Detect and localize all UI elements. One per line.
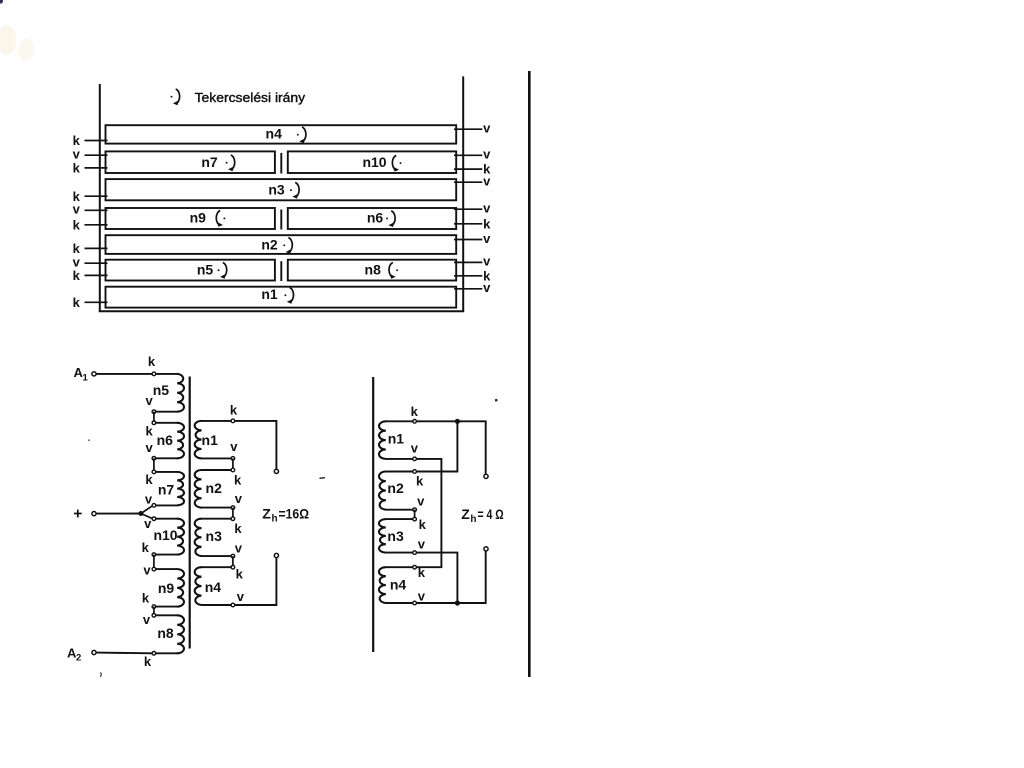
winding direction arrow in n2 bbox=[283, 238, 292, 254]
svg-text:v: v bbox=[483, 174, 491, 189]
legend: winding direction symbol bbox=[171, 89, 180, 105]
svg-text:Tekercselési irány: Tekercselési irány bbox=[195, 90, 306, 105]
winding par n1 coil bbox=[379, 421, 413, 459]
node v of par n3 bbox=[413, 551, 417, 555]
junction dot bottom rail bbox=[455, 600, 460, 605]
wire n1.k to junction and output top bbox=[417, 421, 486, 474]
svg-text:n4: n4 bbox=[266, 126, 283, 142]
node v of par n2 bbox=[413, 508, 417, 512]
winding direction arrow in n5 bbox=[218, 263, 227, 279]
wire A1 to n5.k bbox=[96, 373, 152, 375]
node v of par n1 bbox=[413, 457, 417, 461]
separator dash row n9/n6 bbox=[280, 210, 282, 230]
node k of sec n1 bbox=[231, 419, 235, 423]
svg-text:h: h bbox=[272, 514, 278, 525]
node k of n9 bbox=[152, 605, 156, 609]
node k of n8 bbox=[152, 652, 156, 656]
svg-text:k: k bbox=[142, 540, 150, 555]
winding layer bar n4 bbox=[106, 125, 457, 143]
svg-text:n5: n5 bbox=[153, 382, 170, 398]
node v of n6 bbox=[152, 457, 156, 461]
node v of n9 bbox=[152, 567, 156, 571]
lead wire k of n3 (left) bbox=[85, 195, 108, 197]
node v of sec n1 bbox=[231, 457, 235, 461]
node k of sec n3 bbox=[231, 517, 235, 521]
lead wire v of n6 (right) bbox=[454, 208, 482, 210]
winding n9 coil bbox=[156, 569, 184, 607]
node v of sec n4 bbox=[231, 603, 235, 607]
winding direction arrow in n3 bbox=[290, 182, 299, 198]
svg-text:k: k bbox=[418, 565, 426, 580]
winding direction arrow in n1 bbox=[284, 288, 293, 304]
node k of sec n2 bbox=[231, 468, 235, 472]
winding n10 coil bbox=[156, 519, 184, 555]
svg-text:n5: n5 bbox=[197, 262, 214, 278]
terminal A2 circle bbox=[92, 650, 96, 654]
junction dot (center tap) bbox=[138, 511, 143, 516]
winding par n4 coil bbox=[379, 567, 413, 603]
wire n1.k to output top bbox=[235, 421, 277, 469]
lead wire v of n9 (left) bbox=[85, 209, 108, 211]
lead wire k of n1 (left) bbox=[85, 301, 108, 303]
wire n9.k to n8.v bbox=[153, 607, 155, 616]
svg-text:1: 1 bbox=[83, 372, 89, 383]
svg-text:n7: n7 bbox=[201, 154, 218, 170]
node v of n8 bbox=[152, 614, 156, 618]
svg-text:k: k bbox=[416, 473, 424, 488]
wire n4.v to junction and output bottom bbox=[417, 551, 486, 603]
output terminal bottom (16 ohm) bbox=[274, 553, 278, 557]
svg-text:v: v bbox=[145, 491, 153, 506]
scan speck near core top bbox=[495, 399, 498, 402]
center tap + terminal circle bbox=[92, 511, 96, 515]
lead wire v of n2 (right) bbox=[454, 239, 482, 241]
svg-text:n2: n2 bbox=[261, 237, 278, 253]
bobbin frame bottom edge bbox=[99, 310, 464, 312]
scan artifact: pale stains top-left bbox=[0, 25, 34, 62]
svg-text:v: v bbox=[483, 201, 491, 216]
core line (right transformer) bbox=[372, 377, 374, 652]
svg-text:v: v bbox=[483, 121, 491, 136]
core line (left transformer) bbox=[189, 377, 191, 649]
wire sec n2.v to n3.k bbox=[232, 508, 234, 519]
svg-text:v: v bbox=[143, 562, 151, 577]
svg-text:v: v bbox=[411, 440, 419, 455]
winding sec n3 coil bbox=[195, 519, 231, 556]
svg-text:n10: n10 bbox=[362, 154, 386, 170]
wire n5.v to n6.k bbox=[153, 412, 155, 423]
svg-text:v: v bbox=[73, 202, 81, 217]
svg-text:= 4 Ω: = 4 Ω bbox=[478, 506, 504, 522]
svg-text:v: v bbox=[145, 393, 153, 408]
wire sec n1.v to n2.k bbox=[232, 458, 234, 470]
node v of sec n3 bbox=[231, 554, 235, 558]
svg-text:v: v bbox=[417, 494, 425, 509]
svg-text:k: k bbox=[73, 295, 81, 310]
wire n10.k to n9.v bbox=[153, 555, 155, 570]
svg-text:n6: n6 bbox=[367, 210, 384, 226]
svg-text:v: v bbox=[418, 589, 426, 604]
bobbin frame left edge bbox=[99, 84, 101, 311]
winding sec n2 coil bbox=[195, 470, 231, 508]
svg-text:k: k bbox=[234, 472, 242, 487]
lead wire v of n8 (right) bbox=[454, 261, 482, 263]
svg-text:n7: n7 bbox=[158, 482, 175, 498]
winding direction arrow in n7 bbox=[226, 155, 235, 171]
lead wire k of n10 (right) bbox=[454, 168, 482, 170]
terminal A2 label bbox=[67, 645, 81, 663]
winding layer bar n6 bbox=[288, 208, 456, 229]
svg-text:v: v bbox=[483, 231, 491, 246]
node v of par n4 bbox=[413, 601, 417, 605]
svg-text:k: k bbox=[236, 567, 244, 582]
svg-text:v: v bbox=[145, 440, 153, 455]
lead wire v of n7 (left) bbox=[85, 154, 108, 156]
winding par n3 coil bbox=[379, 519, 413, 553]
lead wire v of n10 (right) bbox=[454, 154, 482, 156]
terminal A1 circle bbox=[92, 372, 96, 376]
winding layer bar n3 bbox=[106, 179, 457, 200]
scan speck comma below A2 bbox=[99, 673, 102, 677]
wire n6.v to n7.k bbox=[153, 458, 155, 472]
lead wire k of n6 (right) bbox=[454, 223, 482, 225]
svg-text:n4: n4 bbox=[390, 576, 407, 592]
node v of sec n2 bbox=[231, 506, 235, 510]
svg-text:v: v bbox=[237, 589, 245, 604]
svg-text:v: v bbox=[483, 147, 491, 162]
node k of par n4 bbox=[413, 565, 417, 569]
svg-text:n2: n2 bbox=[206, 480, 223, 496]
svg-text:n8: n8 bbox=[365, 262, 382, 278]
svg-text:k: k bbox=[411, 404, 419, 419]
winding par n2 coil bbox=[379, 472, 413, 510]
lead wire k of n8 (right) bbox=[454, 275, 482, 277]
page rule: long vertical border line at right bbox=[528, 71, 531, 677]
lead wire k of n7 (left) bbox=[85, 167, 108, 169]
value label Zh=4ohm bbox=[461, 506, 504, 525]
svg-text:v: v bbox=[235, 491, 243, 506]
svg-text:v: v bbox=[483, 280, 491, 295]
bobbin frame right edge bbox=[462, 76, 464, 311]
svg-text:v: v bbox=[235, 541, 243, 556]
svg-text:k: k bbox=[144, 654, 152, 669]
svg-text:k: k bbox=[73, 268, 81, 283]
svg-text:n3: n3 bbox=[387, 528, 404, 544]
lead wire v of n5 (left) bbox=[85, 262, 108, 264]
wire + to junction bbox=[96, 513, 141, 515]
winding direction arrow in n6 bbox=[386, 211, 395, 227]
node k of n5 bbox=[152, 372, 156, 376]
svg-text:k: k bbox=[145, 423, 153, 438]
separator dash row n5/n8 bbox=[280, 261, 282, 281]
winding n6 coil bbox=[156, 423, 184, 459]
svg-text:n9: n9 bbox=[190, 210, 207, 226]
wire junction to n7.v bbox=[141, 506, 152, 514]
winding n7 coil bbox=[156, 472, 184, 506]
svg-text:v: v bbox=[143, 612, 151, 627]
wire sec n3.v to n4.k bbox=[232, 556, 234, 567]
wire junction to n10.v bbox=[141, 514, 152, 519]
node k of par n3 bbox=[413, 517, 417, 521]
svg-text:k: k bbox=[230, 402, 238, 417]
svg-text:2: 2 bbox=[76, 653, 81, 664]
svg-text:k: k bbox=[142, 591, 150, 606]
node v of n10 bbox=[152, 517, 156, 521]
svg-text:n1: n1 bbox=[202, 432, 219, 448]
svg-text:h: h bbox=[470, 514, 476, 525]
svg-text:k: k bbox=[73, 217, 81, 232]
winding direction arrow in n10 bbox=[392, 155, 401, 171]
scan artifact: blue ink mark at page corner bbox=[0, 0, 3, 4]
winding layer bar n2 bbox=[106, 235, 457, 254]
node k of n10 bbox=[152, 553, 156, 557]
svg-text:v: v bbox=[230, 439, 238, 454]
node v of n5 bbox=[152, 410, 156, 414]
winding direction arrow in n9 bbox=[216, 211, 225, 227]
wire n1.v to n4.k (cross link) bbox=[417, 459, 442, 567]
svg-text:n10: n10 bbox=[153, 527, 177, 543]
output terminal bottom (4 ohm) bbox=[484, 547, 488, 551]
winding direction arrow in n8 bbox=[389, 263, 398, 279]
output terminal top (16 ohm) bbox=[274, 469, 278, 473]
svg-text:v: v bbox=[483, 254, 491, 269]
winding sec n4 coil bbox=[195, 567, 231, 605]
winding layer bar n5 bbox=[106, 260, 275, 281]
node k of n7 bbox=[152, 470, 156, 474]
wire n3.v to bottom junction bbox=[417, 553, 458, 603]
lead wire v of n1 (right) bbox=[454, 288, 482, 290]
wire A2 to n8.k bbox=[96, 652, 152, 655]
svg-text:k: k bbox=[483, 216, 491, 231]
svg-text:n1: n1 bbox=[261, 286, 278, 302]
svg-text:k: k bbox=[145, 472, 153, 487]
svg-text:k: k bbox=[234, 521, 242, 536]
scan speck left of primaries bbox=[88, 439, 90, 441]
lead wire k of n5 (left) bbox=[85, 274, 108, 276]
lead wire v of n3 (right) bbox=[454, 181, 482, 183]
node k of par n2 bbox=[413, 470, 417, 474]
lead wire k of n4 (left) bbox=[85, 140, 108, 142]
svg-text:v: v bbox=[418, 536, 426, 551]
svg-text:Z: Z bbox=[461, 506, 470, 522]
separator dash row n7/n10 bbox=[280, 153, 282, 174]
svg-text:v: v bbox=[73, 147, 81, 162]
node v of n7 bbox=[152, 504, 156, 508]
wire junction to n2.k bbox=[417, 421, 458, 471]
svg-text:k: k bbox=[148, 354, 156, 369]
winding layer bar n10 bbox=[288, 151, 456, 173]
svg-text:k: k bbox=[419, 517, 427, 532]
node k of par n1 bbox=[413, 420, 417, 424]
lead wire k of n2 (left) bbox=[85, 247, 108, 249]
center tap + label bbox=[74, 510, 82, 518]
node k of sec n4 bbox=[231, 565, 235, 569]
scan speck dash bbox=[320, 477, 326, 480]
winding layer bar n1 bbox=[106, 287, 457, 308]
svg-text:n3: n3 bbox=[206, 528, 223, 544]
lead wire k of n9 (left) bbox=[85, 224, 108, 226]
svg-text:n8: n8 bbox=[157, 625, 174, 641]
svg-text:n3: n3 bbox=[268, 182, 285, 198]
winding layer bar n8 bbox=[288, 260, 456, 281]
winding layer bar n7 bbox=[106, 151, 275, 173]
svg-text:n9: n9 bbox=[158, 580, 175, 596]
junction dot top rail bbox=[455, 419, 460, 424]
svg-text:=16Ω: =16Ω bbox=[279, 505, 310, 521]
svg-text:k: k bbox=[73, 161, 81, 176]
winding sec n1 coil bbox=[195, 421, 231, 459]
wire par n2.v to n3.k bbox=[414, 510, 416, 519]
core line is shared with left transformer bbox=[0, 0, 1, 1]
lead wire v of n4 (right) bbox=[454, 128, 482, 130]
output terminal top (4 ohm) bbox=[484, 474, 488, 478]
winding n8 coil bbox=[156, 615, 184, 653]
svg-text:n1: n1 bbox=[388, 431, 405, 447]
node k of n6 bbox=[152, 421, 156, 425]
terminal A1 label bbox=[74, 365, 89, 383]
winding layer bar n9 bbox=[106, 208, 275, 229]
svg-text:n6: n6 bbox=[157, 432, 174, 448]
wire n4.v to output bottom bbox=[235, 558, 277, 605]
svg-text:v: v bbox=[144, 516, 152, 531]
value label Zh=16ohm bbox=[262, 505, 309, 524]
svg-text:Z: Z bbox=[262, 505, 271, 521]
winding direction arrow in n4 bbox=[297, 127, 306, 143]
winding n5 coil bbox=[156, 374, 184, 412]
svg-text:n4: n4 bbox=[205, 579, 222, 595]
svg-text:n2: n2 bbox=[387, 480, 404, 496]
